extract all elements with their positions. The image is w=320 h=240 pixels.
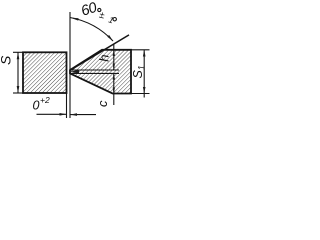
svg-text:1: 1 (137, 65, 147, 70)
svg-text:h: h (96, 55, 111, 62)
svg-text:0: 0 (33, 99, 40, 113)
svg-text:c: c (95, 100, 110, 107)
svg-text:+2: +2 (40, 95, 50, 105)
svg-text:S: S (0, 55, 14, 65)
